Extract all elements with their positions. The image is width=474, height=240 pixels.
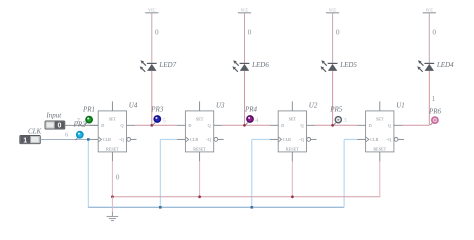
svg-text:PR5: PR5	[329, 106, 343, 114]
wire net 0 reset verticals	[112, 161, 379, 197]
svg-text:U4: U4	[129, 102, 138, 110]
power VCC V4	[423, 9, 436, 13]
svg-text:D: D	[188, 123, 191, 128]
probe PR4	[245, 116, 253, 125]
svg-text:Q: Q	[120, 123, 123, 128]
wire VCC to LED4 anode	[428, 13, 430, 63]
probe PR3	[153, 116, 161, 125]
svg-text:VCC: VCC	[241, 9, 249, 13]
svg-text:~Q: ~Q	[386, 137, 391, 142]
svg-text:0: 0	[57, 123, 61, 130]
svg-text:PR1: PR1	[82, 106, 95, 114]
wire net 5 Q chain	[135, 124, 177, 126]
wire CLK top run	[160, 138, 177, 140]
svg-text:1: 1	[23, 137, 27, 144]
probe PR6	[430, 117, 438, 125]
LED LED5	[321, 60, 338, 72]
svg-text:D: D	[281, 123, 284, 128]
svg-text:U1: U1	[396, 102, 405, 110]
wire VCC to LED5 anode	[332, 13, 334, 63]
D flip-flop U2	[270, 101, 317, 161]
junction reset bus	[111, 195, 114, 198]
junction CLK bus 1	[159, 206, 162, 209]
svg-text:LED6: LED6	[251, 61, 269, 69]
svg-text:SET: SET	[376, 117, 384, 122]
ground	[107, 197, 119, 221]
svg-text:PR6: PR6	[428, 107, 442, 115]
power VCC V3	[326, 9, 339, 13]
wire VCC to LED7 anode	[151, 13, 153, 63]
svg-text:LED5: LED5	[339, 61, 357, 69]
wire net 0 reset bus	[112, 196, 379, 198]
svg-text:0: 0	[336, 28, 340, 37]
probe PR5	[334, 117, 342, 126]
svg-text:LED4: LED4	[436, 61, 454, 69]
wire VCC to LED6 anode	[244, 13, 246, 63]
svg-text:0: 0	[116, 173, 120, 181]
svg-text:0: 0	[248, 28, 252, 37]
svg-text:4: 4	[255, 117, 258, 124]
junction Q/LED	[150, 124, 153, 127]
wire CLK riser	[251, 139, 253, 207]
svg-text:D: D	[101, 123, 104, 128]
svg-text:CLR: CLR	[190, 137, 198, 142]
switch CLK (digital clock 1)	[20, 136, 41, 145]
probe PR2	[75, 132, 83, 141]
svg-text:~Q: ~Q	[299, 137, 304, 142]
svg-text:PR3: PR3	[150, 106, 164, 114]
D flip-flop U4	[90, 101, 137, 161]
junction reset bus	[198, 195, 201, 198]
junction Q/LED	[331, 124, 334, 127]
svg-text:RESET: RESET	[106, 146, 119, 151]
svg-text:D: D	[369, 123, 372, 128]
wire CLK top run	[344, 138, 357, 140]
svg-text:RESET: RESET	[286, 146, 299, 151]
svg-text:Q: Q	[300, 123, 303, 128]
svg-text:PR2: PR2	[73, 121, 87, 129]
svg-text:Q: Q	[388, 123, 391, 128]
svg-text:CLK: CLK	[28, 128, 42, 136]
svg-text:VCC: VCC	[426, 9, 434, 13]
svg-text:CLR: CLR	[370, 137, 378, 142]
svg-text:RESET: RESET	[193, 146, 206, 151]
power VCC V1	[145, 9, 158, 13]
svg-text:0: 0	[155, 28, 159, 37]
junction reset bus	[291, 195, 294, 198]
wire LED4 cathode down	[428, 71, 430, 125]
svg-text:1: 1	[432, 95, 436, 103]
svg-text:CLR: CLR	[103, 137, 111, 142]
svg-text:SET: SET	[109, 117, 117, 122]
svg-text:~Q: ~Q	[119, 137, 124, 142]
wire CLK riser	[159, 139, 161, 207]
wire LED5 cathode down	[332, 71, 334, 125]
svg-text:VCC: VCC	[329, 9, 337, 13]
wire net 6 CLK horizontal	[40, 138, 89, 140]
LED LED4	[417, 60, 434, 72]
wire net 4 Q chain	[222, 124, 270, 126]
junction CLK at U4	[87, 138, 90, 141]
svg-text:VCC: VCC	[148, 9, 156, 13]
svg-text:0: 0	[432, 28, 436, 37]
svg-text:U3: U3	[216, 102, 225, 110]
wire net 1 U1.Q output	[402, 124, 429, 126]
svg-text:LED7: LED7	[158, 61, 176, 69]
LED LED6	[232, 60, 249, 72]
svg-text:~Q: ~Q	[206, 137, 211, 142]
svg-text:PR4: PR4	[244, 106, 258, 114]
svg-text:Q: Q	[208, 123, 211, 128]
svg-text:SET: SET	[196, 117, 204, 122]
switch Input (digital constant 0)	[45, 121, 65, 130]
wire LED6 cathode down	[244, 71, 246, 125]
wire CLK top run	[252, 138, 270, 140]
svg-text:Input: Input	[45, 111, 62, 119]
LED LED7	[140, 60, 157, 72]
D flip-flop U1	[357, 101, 404, 161]
svg-text:U2: U2	[309, 102, 318, 110]
junction CLK bus 2	[251, 206, 254, 209]
wire CLK bottom bus	[88, 206, 344, 208]
wire net 2 Input to U4.D	[65, 124, 98, 126]
power VCC V2	[238, 9, 251, 13]
D flip-flop U3	[177, 101, 224, 161]
svg-text:CLR: CLR	[283, 137, 291, 142]
probe PR1	[85, 117, 92, 126]
wire CLK riser at U4	[87, 139, 89, 207]
junction Q/LED	[243, 124, 246, 127]
svg-text:RESET: RESET	[373, 146, 386, 151]
wire net 3 Q chain	[315, 124, 357, 126]
svg-text:3: 3	[344, 117, 347, 124]
svg-text:5: 5	[163, 117, 166, 124]
wire CLK riser	[343, 139, 345, 207]
svg-text:SET: SET	[289, 117, 297, 122]
wire LED7 cathode down	[151, 71, 153, 125]
